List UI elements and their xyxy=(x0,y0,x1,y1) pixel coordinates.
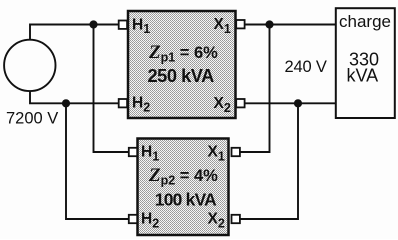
wire T1 X2 to load xyxy=(244,102,336,104)
terminal T1 H1 xyxy=(119,21,127,29)
svg-text:charge: charge xyxy=(339,12,391,31)
transformer T2 box xyxy=(138,139,229,236)
svg-text:240 V: 240 V xyxy=(285,58,327,76)
node junction dot secondary bottom xyxy=(294,99,302,107)
svg-text:Zp1 = 6%: Zp1 = 6% xyxy=(148,42,218,65)
node junction dot primary bottom xyxy=(62,99,70,107)
transformer T1 box xyxy=(128,11,236,118)
wire secondary bus A down to T2 X1 xyxy=(241,25,270,153)
terminal T2 X2 xyxy=(232,215,240,223)
terminal T2 H2 xyxy=(129,215,137,223)
wire source bottom to T1 H2 xyxy=(30,90,119,103)
wire T1 X1 to load xyxy=(244,24,336,26)
svg-text:250 kVA: 250 kVA xyxy=(148,66,215,86)
terminal T1 H2 xyxy=(119,99,127,107)
wire branch down to T2 H2 xyxy=(66,103,129,219)
terminal T2 H1 xyxy=(129,148,137,156)
source generator circle 7200 V xyxy=(4,40,55,91)
node junction dot primary top xyxy=(89,20,97,28)
terminal T1 X1 xyxy=(236,20,244,28)
wire branch down to T2 H1 xyxy=(94,25,129,153)
svg-text:Zp2 = 4%: Zp2 = 4% xyxy=(148,165,218,188)
svg-text:kVA: kVA xyxy=(347,66,379,86)
wire secondary bus B down to T2 X2 xyxy=(241,103,299,219)
wire source top to T1 H1 xyxy=(30,25,119,41)
node junction dot secondary top xyxy=(265,20,273,28)
svg-text:7200 V: 7200 V xyxy=(6,110,58,128)
terminal T1 X2 xyxy=(236,99,244,107)
svg-text:100 kVA: 100 kVA xyxy=(155,189,217,209)
load box charge xyxy=(336,8,395,118)
terminal T2 X1 xyxy=(232,148,240,156)
